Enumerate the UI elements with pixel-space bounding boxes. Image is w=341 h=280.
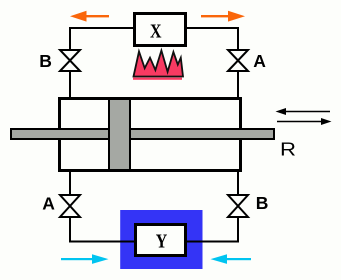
flame pink underline [133, 78, 182, 80]
svg-text:X: X [150, 21, 162, 43]
wire top-right corner [185, 28, 238, 50]
wire bottom-left corner [70, 218, 136, 242]
valve A top-right [228, 50, 248, 71]
wire bottom-right corner [186, 218, 238, 242]
wire cylinder bottom to valve B (bottom-right) [237, 171, 239, 195]
wire valve A to cylinder top [237, 72, 239, 99]
valve A bottom-left [60, 195, 80, 217]
blue block around Y [120, 210, 202, 269]
valve B bottom-right [228, 195, 248, 217]
svg-text:A: A [42, 194, 55, 214]
piston rod R [11, 129, 274, 139]
piston [109, 98, 130, 171]
orange arrow right (top) [201, 11, 245, 22]
wire top-left corner [70, 28, 135, 50]
valve B top-left [60, 50, 80, 71]
wire cylinder bottom to valve A (bottom-left) [69, 171, 71, 195]
orange arrow left (top) [70, 11, 109, 22]
svg-text:B: B [39, 51, 52, 71]
double arrow upper (left pointing) [276, 108, 331, 115]
svg-text:R: R [280, 140, 296, 160]
cyan arrow right (bottom, pointing left) [211, 254, 252, 264]
flame / heater symbol [134, 51, 184, 77]
box X [135, 14, 186, 46]
cyan arrow left (bottom, pointing right) [61, 254, 109, 264]
svg-text:A: A [253, 51, 266, 71]
cylinder bottom wall over piston [107, 169, 132, 172]
wire valve B to cylinder top [69, 72, 71, 99]
cylinder top wall over piston [107, 97, 132, 100]
cylinder body [60, 99, 241, 171]
double arrow lower (right pointing) [277, 118, 332, 125]
svg-text:Y: Y [156, 232, 168, 253]
box Y [136, 225, 186, 256]
svg-text:B: B [256, 193, 269, 213]
